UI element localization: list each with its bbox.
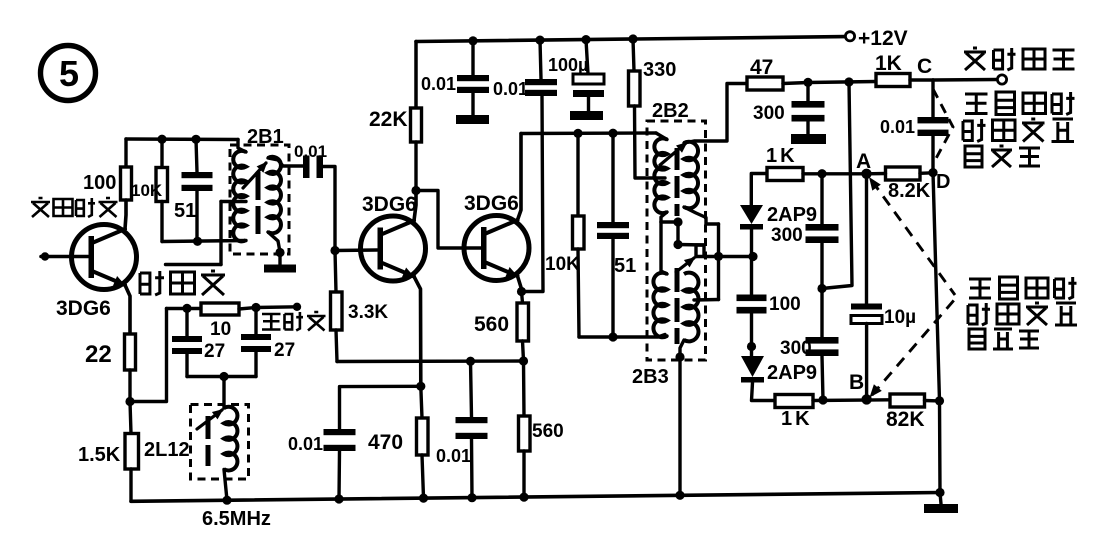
resistor 10K mid (573, 216, 585, 249)
capacitor 0.01 no1 (457, 75, 489, 93)
wire 10K bottom lead (160, 202, 163, 242)
transformer 2B3 primary winding (653, 273, 667, 338)
wire audio line (808, 82, 876, 83)
svg-text:6.5MHz: 6.5MHz (202, 508, 271, 530)
node rail junction 2L12 (222, 496, 231, 505)
wire Q2 emitter lead (414, 277, 421, 387)
wire 8.2K to D (920, 171, 933, 175)
label 3.3K (348, 302, 388, 323)
label Q3 3DG6 (464, 192, 519, 215)
resistor 560 no2 top lead (522, 361, 526, 416)
svg-text:3DG6: 3DG6 (362, 193, 417, 216)
label 560 no1 (474, 313, 509, 336)
node detector low junction (817, 284, 826, 293)
wire to 2L12 (222, 377, 225, 409)
svg-text:300: 300 (780, 338, 812, 359)
node Q3 emitter junction (517, 287, 526, 296)
inductor 2L12 box (191, 405, 249, 480)
wire 2B3 secondary bottom lead (680, 340, 684, 357)
label 1K no2 (766, 145, 798, 167)
svg-text:1K: 1K (766, 145, 798, 167)
label 100 det (769, 294, 801, 315)
label 27 no1 (204, 341, 225, 362)
capacitor 10u plus plate (851, 304, 882, 310)
wire Q1 collector lead (125, 200, 126, 229)
wire ground rail (131, 493, 940, 502)
node feed junction 51 (608, 129, 617, 138)
wire 51 bottom lead (195, 191, 198, 242)
wire C to 0.01 cap (931, 80, 934, 117)
wire A to 8.2K (867, 172, 886, 176)
resistor 82K (890, 394, 925, 407)
svg-text:51: 51 (614, 255, 636, 277)
wire pi-filter top right (239, 307, 297, 309)
svg-text:2AP9: 2AP9 (767, 204, 817, 226)
label 300 no1 (753, 103, 785, 124)
svg-text:27: 27 (204, 341, 225, 362)
node 300 no3 bottom junction (818, 395, 827, 404)
wire 0.01 no1 ground stem (471, 93, 474, 115)
callout bracket C-D (933, 89, 953, 164)
node rail junction 0.01 no4 (334, 494, 343, 503)
wire tertiary bottom bus (579, 335, 665, 338)
transistor Q1 3DG6 (72, 225, 137, 290)
label input from video amp (31, 198, 118, 217)
node tertiary bus junction (608, 332, 617, 341)
inductor 2L12 tuning arrow (197, 409, 224, 429)
label 10K left (131, 181, 163, 200)
svg-text:8.2K: 8.2K (888, 180, 931, 202)
wire detector mid line (696, 255, 753, 258)
wire 2B3 primary bottom connector (661, 336, 667, 337)
wire 22K to collector node (414, 142, 417, 191)
label 51 mid (614, 255, 636, 277)
resistor 1K no3 (775, 395, 813, 408)
node top rail junction 330 (628, 34, 637, 43)
resistor 470 top lead (421, 386, 422, 418)
wire 300 no3 bottom lead (822, 356, 823, 400)
wire right ground stem (940, 493, 941, 505)
capacitor 27 no2 (241, 334, 271, 352)
label 2B1 (247, 126, 284, 148)
resistor 1K no2 (767, 168, 803, 181)
capacitor 100u minus plate (573, 90, 604, 97)
label D1 2AP9 (767, 204, 817, 226)
inductor 2L12 core dash2 (206, 445, 211, 466)
callout arrow to A (869, 177, 955, 295)
label 2B3 (632, 366, 669, 388)
transformer 2B2 secondary winding (684, 142, 698, 209)
wire 51 mid bottom lead (611, 239, 614, 337)
node audio junction 300 (803, 78, 812, 87)
capacitor 300 no3 top lead (820, 289, 823, 338)
svg-text:100µ: 100µ (548, 55, 588, 75)
node audio junction riser (844, 77, 853, 86)
wire 2B1 primary tap lead (221, 200, 246, 203)
svg-text:560: 560 (474, 313, 509, 336)
node 51 bottom junction (193, 237, 202, 246)
node diode mid junction (748, 252, 757, 261)
label annotation lower line2 (968, 303, 1077, 325)
transformer 2B2 tuning arrow (660, 142, 688, 165)
node A (861, 169, 871, 179)
svg-text:3.3K: 3.3K (348, 302, 388, 323)
capacitor 0.01 no4 (324, 429, 356, 451)
wire emitter bus horizontal (337, 359, 524, 363)
wire 10K-51 bottom bus (162, 241, 246, 242)
wire Q3 collector riser (518, 134, 522, 221)
label Q2 3DG6 (362, 193, 417, 216)
node 2B1 secondary ground junction (275, 248, 284, 257)
transformer 2B1 core dash1 (256, 172, 261, 200)
svg-text:330: 330 (643, 59, 676, 81)
ground bottom right (924, 504, 958, 513)
svg-text:0.01: 0.01 (294, 142, 327, 161)
resistor 22 (125, 334, 136, 370)
svg-text:1K: 1K (875, 52, 902, 75)
capacitor 0.01 no3 (456, 417, 488, 439)
wire 47 to audio line (783, 83, 808, 84)
wire D1 to mid junction (750, 230, 753, 257)
resistor 10K left (156, 168, 168, 202)
node 1K-300 junction (817, 169, 826, 178)
svg-text:D: D (936, 171, 950, 193)
node rail junction 470 (419, 494, 428, 503)
wire rail corner to 22K (414, 42, 418, 109)
terminal output open circle (997, 75, 1006, 84)
wire C to output (933, 78, 997, 82)
label 330 (643, 59, 676, 81)
wire 100u ground stem (587, 97, 590, 111)
wire 0.01 series to Q2 base (323, 167, 335, 251)
label 51 left (174, 200, 196, 222)
label 1.5K (78, 444, 121, 466)
svg-text:10: 10 (210, 319, 231, 340)
capacitor 10u top lead (865, 174, 868, 304)
wire 2B2 secondary bottom lead (684, 207, 719, 224)
svg-text:0.01: 0.01 (493, 79, 528, 99)
node winding common junction2 (673, 240, 682, 249)
wire Q3 emitter lead (518, 276, 522, 292)
capacitor 100u plus plate (573, 74, 604, 84)
node rail junction 560 (519, 493, 528, 502)
transformer 2B1 core dash2 (256, 206, 261, 234)
label D (936, 171, 950, 193)
wire 82K to right vertical (925, 399, 940, 403)
svg-text:22K: 22K (369, 108, 408, 131)
wire Q2 base lead (335, 248, 377, 252)
node top rail junction 0.01 no2 (535, 36, 544, 45)
label 0.01 no1 (421, 74, 456, 94)
wire tertiary tap lead (694, 298, 719, 302)
capacitor 100 top lead (750, 257, 753, 295)
wire 1.5K to ground rail (129, 469, 132, 501)
capacitor 0.01 no2 top lead (540, 40, 541, 79)
capacitor 300 no2 (806, 224, 839, 243)
label Q1 3DG6 (56, 297, 111, 320)
svg-text:300: 300 (753, 103, 785, 124)
label 2L12 (144, 439, 190, 461)
node Q2 emitter resistor junction (416, 382, 425, 391)
resistor 22K (411, 108, 422, 142)
label +12V (858, 27, 908, 50)
capacitor 0.01 series plates (303, 156, 323, 179)
svg-text:27: 27 (274, 340, 295, 361)
wire junction2 to detector line (678, 245, 704, 257)
svg-text:0.01: 0.01 (288, 434, 323, 454)
wire Q2 emitter bypass branch (340, 386, 421, 429)
transformer 2B2 core (675, 148, 680, 216)
wire pi-filter top left (167, 307, 202, 310)
node B (861, 394, 871, 404)
resistor 8.2K (886, 167, 921, 180)
label 0.01 no4 (288, 434, 323, 454)
callout arrow to B (870, 299, 956, 398)
label 1K no3 (781, 408, 813, 430)
capacitor 0.01 right (918, 117, 949, 136)
wire 1K no3 to B line (813, 398, 890, 402)
svg-text:51: 51 (174, 200, 196, 222)
svg-text:47: 47 (750, 56, 773, 79)
wire 560 no2 to rail (522, 451, 525, 497)
label 0.01 right (880, 117, 915, 137)
svg-text:3DG6: 3DG6 (56, 297, 111, 320)
resistor 470 (417, 418, 429, 455)
svg-text:2L12: 2L12 (144, 439, 190, 461)
capacitor 51 mid top lead (611, 133, 614, 222)
node rail junction 0.01 no3 (467, 493, 476, 502)
transistor Q3 3DG6 (464, 216, 529, 281)
svg-text:100: 100 (83, 172, 116, 194)
capacitor 300 no2 top lead (820, 174, 823, 224)
transformer 2B1 tuning arrow (243, 162, 268, 189)
transformer 2B1 box (230, 145, 289, 254)
label 22K (369, 108, 408, 131)
resistor 10K left top lead (160, 139, 163, 167)
wire audio riser (822, 82, 852, 289)
wire right vertical (933, 173, 940, 493)
capacitor 300 no3 (806, 337, 839, 356)
node input terminal dot (41, 252, 49, 260)
node 82K junction (935, 396, 944, 405)
node winding common junction1 (673, 217, 682, 226)
label jian-pin-shu-chu (FM output) (964, 48, 1075, 70)
transformer 2B2 2B3 box (647, 121, 706, 360)
ground 2B1 secondary (264, 265, 296, 273)
resistor 330 top lead (633, 39, 634, 71)
wire 2B3 primary top lead (661, 222, 667, 274)
wire 3.3K to emitter bus (336, 330, 337, 362)
label 2B2 (652, 100, 689, 122)
node rail junction 2B3 (675, 491, 684, 500)
resistor 330 (629, 71, 641, 106)
node Q2 base junction (330, 246, 339, 255)
inductor 2L12 coil (224, 407, 237, 471)
transformer 2B3 core (675, 268, 680, 344)
wire +12V top rail (416, 37, 845, 42)
node emitter bus junction 560 (519, 356, 528, 365)
label 47 (750, 56, 773, 79)
label annotation upper line2 (963, 119, 1074, 142)
resistor 1K no1 (876, 74, 910, 87)
capacitor 10u minus plate (851, 316, 882, 324)
wire common junction vertical (676, 222, 679, 245)
ground 100u (570, 111, 603, 120)
resistor 10K mid top lead (576, 133, 579, 216)
wire 1K to C node (910, 78, 933, 81)
svg-text:B: B (849, 371, 864, 394)
resistor 100 (collector load) (121, 167, 132, 200)
wire power stub vertical (219, 202, 222, 265)
svg-text:A: A (856, 150, 871, 173)
label 100 (83, 172, 116, 194)
node D2 junction (747, 342, 756, 351)
capacitor 51 left top lead (196, 139, 197, 172)
node 2B3 ground junction (675, 352, 684, 361)
svg-text:0.01: 0.01 (421, 74, 456, 94)
resistor 560 no1 (517, 303, 529, 341)
wire 27 no2 bottom lead (254, 352, 257, 377)
svg-text:82K: 82K (886, 408, 925, 431)
label 0.01 series (294, 142, 327, 161)
wire Q2 collector lead (414, 191, 416, 221)
wire stage1 top rail (126, 137, 238, 141)
transformer 2B1 primary winding (233, 151, 246, 241)
label 1K no1 (875, 52, 902, 75)
label zhi-shifang (to video amp) (262, 312, 326, 331)
capacitor 100 det (737, 295, 767, 314)
capacitor 300 no1 (792, 101, 825, 122)
svg-text:560: 560 (532, 421, 564, 442)
svg-text:2B3: 2B3 (632, 366, 669, 388)
node stage1 rail junction 51 (191, 135, 200, 144)
diode D2 2AP9 (741, 356, 764, 383)
capacitor 300 no1 top lead (806, 82, 809, 101)
wire Q1 base input (41, 255, 88, 259)
svg-text:100: 100 (769, 294, 801, 315)
diode D1 2AP9 (740, 205, 763, 230)
label 100u (548, 55, 588, 75)
label jie-dianyuan (to power) (140, 271, 225, 295)
inductor 2L12 core dash1 (206, 416, 211, 439)
transformer 2B3 tuning arrow (676, 257, 696, 272)
capacitor 0.01 no1 top lead (471, 41, 474, 75)
svg-text:+12V: +12V (858, 27, 908, 50)
capacitor 27 no1 (172, 336, 202, 354)
label 560 no2 (532, 421, 564, 442)
node zhi-shifang stub terminal (293, 303, 301, 311)
wire 100 to D2 junction (750, 314, 753, 347)
node stage1 rail junction 10K (157, 135, 166, 144)
label 470 (368, 431, 403, 454)
transistor Q2 3DG6 (361, 216, 426, 281)
wire 0.01 no4 to rail (337, 451, 341, 499)
wire 0.01 no2 to Q3 emitter (522, 96, 544, 292)
wire 2B2 secondary top lead (684, 84, 747, 144)
label 300 no2 (771, 225, 803, 246)
wire 0.01 right to D (931, 136, 934, 173)
label A (856, 150, 871, 173)
wire 2B1 secondary bottom lead (268, 232, 280, 252)
label annotation lower line3 (969, 329, 1039, 349)
node D (928, 168, 937, 177)
wire D2 top lead (750, 347, 753, 357)
label 0.01 no2 (493, 79, 528, 99)
resistor 1.5K (125, 434, 139, 470)
node pi-filter right junction (251, 303, 260, 312)
ground 300 no1 (791, 134, 826, 144)
wire 2B1 ground stem (278, 253, 281, 265)
svg-text:300: 300 (771, 225, 803, 246)
svg-text:1K: 1K (781, 408, 813, 430)
capacitor 100u top lead (586, 40, 588, 74)
transformer 2B2 primary winding (654, 138, 667, 213)
resistor 10 (horizontal) (201, 303, 239, 315)
wire 10u to B (865, 324, 868, 400)
wire 100 top lead (124, 139, 127, 167)
label annotation upper line3 (965, 146, 1040, 167)
label 10K mid (545, 254, 580, 275)
svg-text:2B1: 2B1 (247, 126, 284, 148)
svg-text:5: 5 (59, 53, 79, 94)
svg-text:10µ: 10µ (884, 307, 916, 328)
svg-text:22: 22 (85, 341, 112, 368)
node emitter divider junction (125, 397, 134, 406)
svg-text:0.01: 0.01 (436, 446, 471, 466)
label B (849, 371, 864, 394)
wire pi-filter bottom bus (187, 375, 256, 378)
node emitter bus junction 0.01 (466, 357, 475, 366)
wire Q3 collector feed line (521, 131, 656, 135)
wire 2L12 to ground rail (224, 470, 227, 501)
node Q2 collector junction (411, 186, 420, 195)
wire 0.01 no3 to rail (470, 439, 474, 498)
wire secondary-tertiary link (717, 224, 720, 300)
capacitor 0.01 no2 (525, 79, 557, 96)
label 0.01 no3 (436, 446, 471, 466)
wire 2B1 secondary top lead (268, 158, 303, 166)
node right vertical rail junction (935, 488, 944, 497)
svg-text:0.01: 0.01 (880, 117, 915, 137)
wire feed to 2B2 primary top (656, 133, 667, 140)
label 82K (886, 408, 925, 431)
wire 2B2 primary bottom lead (661, 212, 667, 222)
resistor 3.3K (331, 292, 343, 330)
wire winding common horizontal (661, 220, 678, 223)
wire stage1 rail to 2B1 primary (238, 140, 246, 153)
label annotation lower line1 (969, 277, 1077, 299)
terminal +12V open circle (845, 32, 854, 41)
wire 2B3 to ground rail (678, 357, 681, 495)
wire 300 no2 bottom lead (820, 243, 823, 289)
capacitor 27 no1 top lead (185, 308, 188, 336)
resistor 560 no2 (519, 416, 531, 451)
svg-text:1.5K: 1.5K (78, 444, 121, 466)
wire 10K mid bottom lead (578, 249, 579, 337)
transformer 2B1 secondary winding (268, 157, 281, 233)
wire Q1 emitter lead (125, 285, 130, 334)
figure number circled 5 (41, 46, 96, 101)
svg-text:2B2: 2B2 (652, 100, 689, 122)
label 22 (85, 341, 112, 368)
node pi-filter left junction (182, 304, 191, 313)
label 300 no3 (780, 338, 812, 359)
resistor 47 (747, 77, 783, 90)
node top rail junction 100u (581, 35, 590, 44)
label 27 no2 (274, 340, 295, 361)
wire Q2 collector to Q3 base (416, 191, 481, 249)
label 10 (210, 319, 231, 340)
